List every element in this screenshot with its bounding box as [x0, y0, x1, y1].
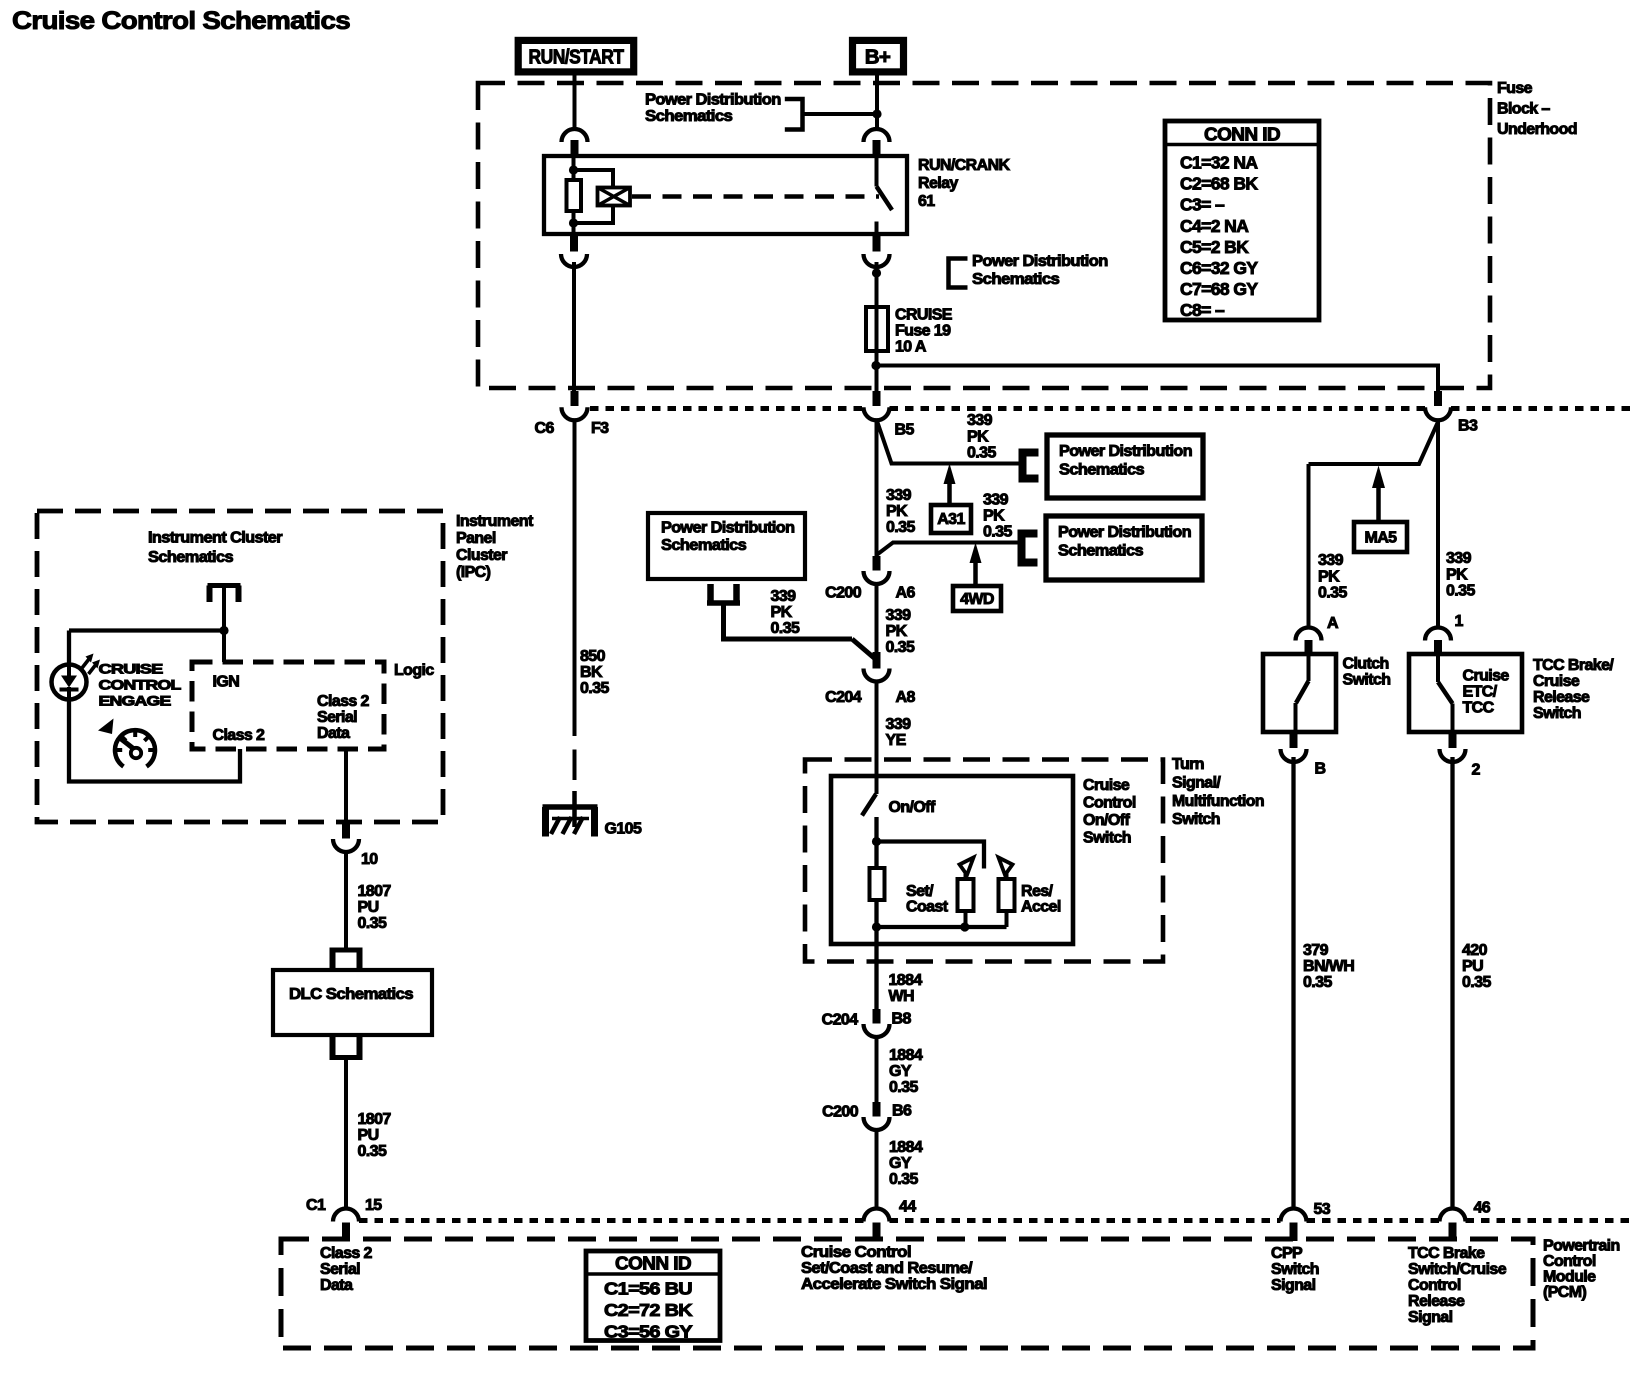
svg-text:CRUISE: CRUISE — [895, 307, 953, 324]
svg-text:0.35: 0.35 — [1462, 974, 1491, 991]
svg-text:Signal/: Signal/ — [1172, 774, 1221, 791]
svg-text:DLC Schematics: DLC Schematics — [289, 986, 414, 1003]
svg-text:On/Off: On/Off — [1083, 812, 1130, 829]
svg-text:Power Distribution: Power Distribution — [661, 520, 794, 537]
svg-text:Res/: Res/ — [1021, 883, 1054, 900]
svg-text:B+: B+ — [865, 46, 891, 69]
svg-text:4WD: 4WD — [960, 591, 994, 608]
svg-text:Schematics: Schematics — [148, 549, 234, 566]
svg-text:TCC: TCC — [1463, 700, 1495, 717]
svg-text:TCC Brake: TCC Brake — [1408, 1245, 1485, 1262]
svg-text:C2=72 BK: C2=72 BK — [604, 1300, 693, 1320]
svg-text:0.35: 0.35 — [1318, 585, 1347, 602]
svg-text:Cluster: Cluster — [456, 547, 507, 564]
svg-text:0.35: 0.35 — [1446, 583, 1475, 600]
svg-text:Accelerate Switch Signal: Accelerate Switch Signal — [801, 1276, 987, 1293]
svg-text:Cruise: Cruise — [1463, 668, 1510, 685]
svg-text:CPP: CPP — [1271, 1245, 1303, 1262]
svg-text:C204: C204 — [825, 689, 862, 706]
svg-text:PK: PK — [771, 604, 793, 621]
svg-text:C1=56 BU: C1=56 BU — [604, 1279, 692, 1299]
svg-text:0.35: 0.35 — [1303, 974, 1332, 991]
svg-text:0.35: 0.35 — [886, 639, 915, 656]
svg-text:0.35: 0.35 — [580, 680, 609, 697]
svg-text:Release: Release — [1408, 1293, 1465, 1310]
svg-text:C204: C204 — [822, 1012, 859, 1029]
svg-text:C3= –: C3= – — [1180, 195, 1225, 215]
svg-text:IGN: IGN — [213, 674, 240, 691]
svg-text:15: 15 — [365, 1197, 382, 1214]
svg-text:F3: F3 — [591, 420, 609, 437]
svg-text:CONN ID: CONN ID — [1204, 125, 1281, 145]
svg-text:Control: Control — [1408, 1277, 1461, 1294]
svg-text:ENGAGE: ENGAGE — [99, 693, 171, 709]
svg-text:Turn: Turn — [1172, 756, 1204, 773]
svg-text:Instrument: Instrument — [456, 513, 534, 530]
svg-text:0.35: 0.35 — [967, 445, 996, 462]
svg-text:PK: PK — [967, 428, 989, 445]
svg-text:Switch: Switch — [1083, 830, 1131, 847]
svg-text:379: 379 — [1303, 942, 1329, 959]
svg-text:TCC Brake/: TCC Brake/ — [1533, 657, 1614, 674]
svg-text:B: B — [1315, 761, 1326, 778]
svg-text:Power Distribution: Power Distribution — [1058, 524, 1191, 541]
svg-text:Set/: Set/ — [906, 883, 934, 900]
svg-text:Class 2: Class 2 — [213, 727, 266, 744]
svg-text:Serial: Serial — [320, 1261, 360, 1278]
svg-text:Set/Coast and Resume/: Set/Coast and Resume/ — [801, 1260, 973, 1277]
svg-text:Class 2: Class 2 — [320, 1245, 373, 1262]
svg-text:BN/WH: BN/WH — [1303, 958, 1354, 975]
svg-text:Fuse: Fuse — [1497, 80, 1533, 97]
svg-text:339: 339 — [886, 487, 912, 504]
svg-text:53: 53 — [1314, 1201, 1331, 1218]
svg-text:339: 339 — [1318, 552, 1344, 569]
svg-text:0.35: 0.35 — [889, 1079, 918, 1096]
svg-text:Module: Module — [1543, 1269, 1596, 1286]
svg-text:C6: C6 — [535, 420, 555, 437]
svg-text:61: 61 — [918, 193, 935, 210]
svg-text:Power Distribution: Power Distribution — [972, 253, 1108, 270]
svg-text:Release: Release — [1533, 689, 1590, 706]
svg-text:1807: 1807 — [358, 1111, 392, 1128]
svg-text:BK: BK — [580, 664, 603, 681]
svg-text:1884: 1884 — [889, 972, 923, 989]
svg-text:0.35: 0.35 — [771, 620, 800, 637]
svg-text:(IPC): (IPC) — [456, 564, 491, 581]
svg-text:C8= –: C8= – — [1180, 300, 1225, 320]
svg-text:Schematics: Schematics — [661, 537, 747, 554]
svg-text:C5=2 BK: C5=2 BK — [1180, 237, 1249, 257]
svg-text:C3=56 GY: C3=56 GY — [604, 1322, 693, 1342]
svg-text:Data: Data — [317, 725, 350, 742]
svg-text:C200: C200 — [822, 1104, 859, 1121]
svg-text:(PCM): (PCM) — [1543, 1284, 1586, 1301]
svg-text:10: 10 — [361, 851, 378, 868]
svg-text:1884: 1884 — [889, 1047, 923, 1064]
svg-text:B5: B5 — [895, 422, 915, 439]
svg-text:0.35: 0.35 — [886, 519, 915, 536]
svg-text:A31: A31 — [937, 511, 965, 528]
svg-text:Serial: Serial — [317, 709, 357, 726]
svg-text:RUN/START: RUN/START — [529, 46, 625, 69]
svg-text:Switch/Cruise: Switch/Cruise — [1408, 1261, 1507, 1278]
svg-text:46: 46 — [1474, 1200, 1491, 1217]
svg-text:Relay: Relay — [918, 175, 958, 192]
svg-text:PK: PK — [886, 623, 908, 640]
svg-text:CONTROL: CONTROL — [99, 677, 182, 693]
svg-text:Schematics: Schematics — [1058, 543, 1144, 560]
svg-text:Schematics: Schematics — [1059, 462, 1145, 479]
svg-text:0.35: 0.35 — [983, 524, 1012, 541]
svg-text:339: 339 — [967, 412, 993, 429]
svg-text:Accel: Accel — [1021, 899, 1061, 916]
svg-text:Signal: Signal — [1408, 1309, 1453, 1326]
svg-text:MA5: MA5 — [1365, 530, 1398, 547]
svg-text:Switch: Switch — [1271, 1261, 1319, 1278]
svg-text:PK: PK — [886, 503, 908, 520]
svg-text:0.35: 0.35 — [889, 1171, 918, 1188]
svg-text:339: 339 — [771, 588, 797, 605]
svg-text:PU: PU — [1462, 958, 1483, 975]
svg-text:Logic: Logic — [394, 662, 434, 679]
svg-text:2: 2 — [1472, 762, 1481, 779]
svg-text:Instrument Cluster: Instrument Cluster — [148, 530, 282, 547]
svg-text:Signal: Signal — [1271, 1277, 1316, 1294]
svg-text:C6=32 GY: C6=32 GY — [1180, 258, 1258, 278]
svg-text:0.35: 0.35 — [358, 1143, 387, 1160]
svg-text:1: 1 — [1455, 613, 1464, 630]
svg-text:Switch: Switch — [1533, 705, 1581, 722]
svg-text:339: 339 — [886, 607, 912, 624]
svg-text:Schematics: Schematics — [972, 271, 1060, 288]
svg-text:CRUISE: CRUISE — [99, 661, 163, 677]
svg-text:ETC/: ETC/ — [1463, 684, 1498, 701]
svg-text:C1: C1 — [306, 1197, 326, 1214]
svg-text:On/Off: On/Off — [889, 799, 936, 816]
svg-text:CONN ID: CONN ID — [615, 1254, 692, 1274]
svg-text:Block –: Block – — [1497, 101, 1550, 118]
svg-text:Power Distribution: Power Distribution — [1059, 443, 1192, 460]
svg-text:C2=68 BK: C2=68 BK — [1180, 174, 1258, 194]
svg-text:A8: A8 — [896, 689, 916, 706]
svg-text:C1=32 NA: C1=32 NA — [1180, 153, 1258, 173]
svg-text:B8: B8 — [892, 1011, 912, 1028]
svg-text:Cruise Control: Cruise Control — [801, 1244, 911, 1261]
svg-text:B6: B6 — [892, 1103, 912, 1120]
svg-text:0.35: 0.35 — [358, 915, 387, 932]
svg-text:Power Distribution: Power Distribution — [645, 92, 781, 109]
svg-text:Powertrain: Powertrain — [1543, 1238, 1620, 1255]
svg-text:PK: PK — [1446, 566, 1468, 583]
svg-text:Cruise: Cruise — [1533, 673, 1580, 690]
svg-text:10 A: 10 A — [895, 339, 927, 356]
svg-text:PK: PK — [983, 508, 1005, 525]
svg-text:PU: PU — [358, 899, 379, 916]
svg-text:Cruise: Cruise — [1083, 777, 1130, 794]
svg-text:339: 339 — [886, 716, 912, 733]
svg-text:Coast: Coast — [906, 899, 949, 916]
svg-text:Class 2: Class 2 — [317, 693, 370, 710]
svg-text:Control: Control — [1543, 1253, 1596, 1270]
svg-text:Multifunction: Multifunction — [1172, 793, 1264, 810]
svg-text:Cruise Control Schematics: Cruise Control Schematics — [12, 7, 350, 35]
svg-text:1884: 1884 — [889, 1139, 923, 1156]
svg-text:GY: GY — [889, 1155, 912, 1172]
svg-text:C4=2 NA: C4=2 NA — [1180, 216, 1249, 236]
svg-text:Control: Control — [1083, 795, 1136, 812]
svg-text:GY: GY — [889, 1063, 912, 1080]
svg-text:850: 850 — [580, 648, 606, 665]
svg-text:A: A — [1327, 615, 1339, 632]
svg-text:1807: 1807 — [358, 883, 392, 900]
svg-text:C200: C200 — [825, 585, 862, 602]
svg-text:B3: B3 — [1458, 418, 1478, 435]
svg-text:Schematics: Schematics — [645, 108, 733, 125]
svg-text:Underhood: Underhood — [1497, 121, 1577, 138]
svg-text:YE: YE — [886, 732, 907, 749]
svg-text:Switch: Switch — [1172, 811, 1220, 828]
svg-text:A6: A6 — [896, 585, 916, 602]
svg-text:Panel: Panel — [456, 530, 496, 547]
svg-text:420: 420 — [1462, 942, 1488, 959]
svg-text:Switch: Switch — [1343, 672, 1391, 689]
svg-text:C7=68 GY: C7=68 GY — [1180, 279, 1258, 299]
svg-text:Fuse 19: Fuse 19 — [895, 323, 951, 340]
svg-text:Data: Data — [320, 1277, 353, 1294]
svg-text:PU: PU — [358, 1127, 379, 1144]
svg-text:44: 44 — [899, 1199, 916, 1216]
svg-text:RUN/CRANK: RUN/CRANK — [918, 157, 1011, 174]
svg-text:PK: PK — [1318, 568, 1340, 585]
svg-text:339: 339 — [983, 492, 1009, 509]
svg-text:Clutch: Clutch — [1343, 656, 1389, 673]
svg-text:G105: G105 — [605, 821, 642, 838]
svg-text:339: 339 — [1446, 550, 1472, 567]
svg-text:WH: WH — [889, 988, 915, 1005]
